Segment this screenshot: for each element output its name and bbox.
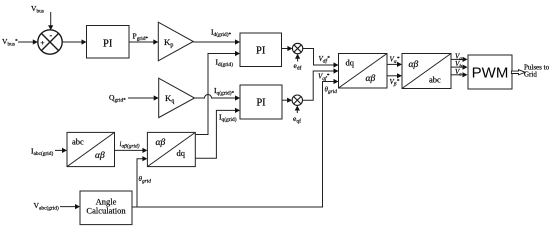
label alphabeta in block bbox=[156, 138, 166, 148]
wire Vc bbox=[451, 72, 468, 77]
label Vbus* bbox=[2, 37, 18, 48]
wire PI1 to Kp bbox=[129, 39, 158, 44]
svg-text:abc: abc bbox=[72, 137, 84, 147]
svg-text:Vβ*: Vβ* bbox=[390, 78, 400, 88]
label abc in block bbox=[72, 137, 84, 147]
wire theta grid branch into alphabeta-dq block bbox=[137, 156, 147, 207]
svg-text:αβ: αβ bbox=[366, 74, 376, 84]
wire eqf into S3 bbox=[295, 106, 300, 114]
wire Vbeta* bbox=[387, 73, 402, 78]
wire Kp to PI2 input Id* bbox=[193, 39, 240, 44]
block PI2 bbox=[240, 33, 282, 67]
label Vabc(grid) bbox=[34, 201, 59, 212]
label Calculation bbox=[86, 206, 126, 216]
svg-text:abc: abc bbox=[429, 75, 441, 85]
wire Vb bbox=[451, 65, 468, 70]
svg-text:Vqf*: Vqf* bbox=[318, 73, 329, 83]
label dq in block bbox=[346, 58, 355, 68]
label Id(grid) bbox=[216, 58, 234, 69]
block PWM bbox=[468, 55, 512, 89]
svg-text:eqf: eqf bbox=[293, 114, 301, 125]
label Va bbox=[455, 52, 462, 62]
summing junction S2 bbox=[292, 43, 302, 53]
label abc in block bbox=[429, 75, 441, 85]
svg-text:dq: dq bbox=[346, 58, 355, 68]
wire Va bbox=[451, 57, 468, 62]
label Iabc(grid) bbox=[31, 147, 53, 158]
gain Kp bbox=[158, 22, 193, 61]
label Id(grid)* bbox=[211, 28, 232, 39]
block dq-to-alphabeta bbox=[339, 54, 388, 89]
label Vbus bbox=[31, 4, 44, 15]
label alphabeta in block bbox=[366, 74, 376, 84]
wire Vbus into summer bbox=[48, 12, 53, 30]
wire S1 to PI1 bbox=[62, 39, 86, 44]
label PWM bbox=[472, 64, 509, 81]
label Angle bbox=[96, 197, 117, 207]
svg-text:Vbus: Vbus bbox=[31, 4, 44, 15]
svg-text:Calculation: Calculation bbox=[86, 206, 126, 216]
svg-text:αβ: αβ bbox=[156, 138, 166, 148]
label edf bbox=[294, 61, 302, 72]
sign plus on S1 bbox=[40, 38, 44, 47]
svg-text:Vbus*: Vbus* bbox=[2, 37, 18, 48]
block PI1 bbox=[87, 26, 130, 59]
label PI2 bbox=[256, 45, 266, 56]
wire edf into S2 bbox=[295, 54, 300, 62]
svg-text:αβ: αβ bbox=[95, 151, 105, 161]
label Vc bbox=[455, 68, 462, 78]
block abc-to-alphabeta bbox=[67, 132, 115, 166]
wire Vabc(grid) into angle calc bbox=[60, 204, 80, 209]
label alphabeta in block bbox=[95, 151, 105, 161]
label theta grid right bbox=[325, 86, 338, 96]
label PI1 bbox=[103, 38, 113, 49]
wire theta grid from angle calc to dq block bbox=[132, 79, 339, 207]
block PI3 bbox=[240, 85, 282, 119]
svg-text:Iq(grid)*: Iq(grid)* bbox=[214, 86, 235, 97]
label Valpha* bbox=[390, 56, 400, 66]
svg-text:dq: dq bbox=[177, 148, 186, 158]
label Grid bbox=[524, 71, 537, 79]
label Iq(grid) bbox=[219, 113, 237, 124]
pulses output hollow arrow bbox=[511, 70, 525, 75]
wire PI2 to summer S2 bbox=[282, 46, 293, 51]
label Pulses to bbox=[524, 64, 550, 72]
wire Iq(grid) feedback from dq block up to PI3 bbox=[195, 108, 240, 158]
svg-text:PI: PI bbox=[256, 45, 266, 56]
svg-text:Vdf*: Vdf* bbox=[319, 55, 330, 65]
block alphabeta-to-dq bbox=[147, 132, 195, 166]
wire S3 to dq block (Vqf*) bbox=[303, 68, 339, 100]
wire PI3 to summer S3 bbox=[282, 98, 292, 103]
gain Kq bbox=[159, 78, 195, 117]
label Kp bbox=[164, 37, 173, 49]
wire S2 to dq block (Vdf*) bbox=[303, 49, 339, 68]
svg-text:edf: edf bbox=[294, 61, 302, 72]
svg-text:Vabc(grid): Vabc(grid) bbox=[34, 201, 59, 212]
wire Id(grid) feedback from dq block up to PI2 bbox=[195, 51, 240, 135]
wire Vbus* into summer bbox=[18, 39, 38, 44]
summing junction S1 bbox=[38, 30, 62, 54]
svg-text:θgrid: θgrid bbox=[325, 86, 338, 96]
svg-text:PI: PI bbox=[256, 98, 266, 109]
svg-text:Id(grid): Id(grid) bbox=[216, 58, 234, 69]
wire Iabc(grid) into abc block bbox=[55, 148, 67, 153]
label Vbeta* bbox=[390, 78, 400, 88]
label Vqf* bbox=[318, 73, 329, 83]
label alphabeta in block bbox=[409, 60, 419, 70]
wire ialphabeta to dq block bbox=[115, 148, 148, 153]
svg-text:+: + bbox=[40, 38, 44, 47]
label PI3 bbox=[256, 98, 266, 109]
label theta grid bottom bbox=[139, 175, 152, 185]
svg-text:-: - bbox=[50, 31, 53, 40]
svg-text:Grid: Grid bbox=[524, 71, 537, 79]
svg-text:Kq: Kq bbox=[165, 93, 174, 105]
label Iq(grid)* bbox=[214, 86, 235, 97]
label Pgrid* bbox=[133, 32, 149, 43]
svg-text:Iq(grid): Iq(grid) bbox=[219, 113, 237, 124]
svg-text:Pgrid*: Pgrid* bbox=[133, 32, 149, 43]
block angle calculation bbox=[80, 191, 132, 225]
svg-text:αβ: αβ bbox=[409, 60, 419, 70]
svg-text:Qgrid*: Qgrid* bbox=[109, 93, 126, 104]
svg-text:PI: PI bbox=[103, 38, 113, 49]
wire Kq to PI3 with hop over Id line bbox=[195, 95, 241, 101]
svg-text:θgrid: θgrid bbox=[139, 175, 152, 185]
svg-text:Id(grid)*: Id(grid)* bbox=[211, 28, 232, 39]
svg-text:Iabc(grid): Iabc(grid) bbox=[31, 147, 53, 158]
wire Qgrid* into Kq bbox=[128, 95, 159, 100]
svg-text:Kp: Kp bbox=[164, 37, 173, 49]
wire Valpha* bbox=[387, 62, 402, 67]
label Vdf* bbox=[319, 55, 330, 65]
svg-text:iαβ(grid): iαβ(grid) bbox=[120, 140, 140, 150]
sign minus on S1 bbox=[50, 31, 53, 40]
label Kq bbox=[165, 93, 174, 105]
block alphabeta-to-abc bbox=[402, 54, 451, 89]
summing junction S3 bbox=[292, 95, 302, 105]
label ialphabeta(grid) bbox=[120, 140, 140, 150]
label dq in block bbox=[177, 148, 186, 158]
svg-text:PWM: PWM bbox=[472, 64, 509, 81]
label Qgrid* bbox=[109, 93, 126, 104]
label eqf bbox=[293, 114, 301, 125]
label Vb bbox=[455, 60, 462, 70]
